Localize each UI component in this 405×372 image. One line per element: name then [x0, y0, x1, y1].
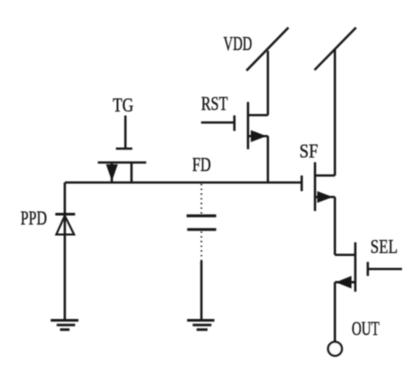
svg-text:FD: FD — [192, 154, 211, 176]
svg-text:SF: SF — [299, 140, 318, 162]
svg-text:OUT: OUT — [352, 318, 380, 340]
svg-text:PPD: PPD — [21, 208, 48, 230]
svg-text:TG: TG — [113, 95, 134, 117]
svg-text:SEL: SEL — [370, 236, 397, 258]
svg-text:RST: RST — [201, 93, 228, 115]
svg-text:VDD: VDD — [223, 33, 252, 55]
